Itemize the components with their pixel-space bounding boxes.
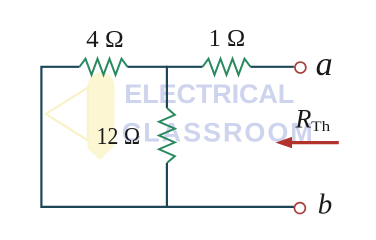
terminal a circle: [295, 62, 306, 73]
arrow R_Th pointing left: [276, 137, 339, 148]
terminal b circle: [294, 203, 305, 214]
wire: middle vertical lower lead: [166, 163, 168, 208]
svg-text:1 Ω: 1 Ω: [209, 26, 246, 52]
wire: middle vertical upper lead: [166, 66, 168, 108]
svg-text:R: R: [295, 105, 312, 134]
resistor R 4ohm zigzag: [80, 59, 128, 75]
resistor 12ohm vertical zigzag: [159, 108, 175, 163]
svg-text:b: b: [318, 189, 333, 221]
watermark logo pencil band: [88, 72, 115, 160]
wire: top middle segment: [128, 66, 203, 68]
watermark logo triangle: [46, 88, 88, 141]
svg-text:4 Ω: 4 Ω: [86, 27, 124, 53]
svg-text:ELECTRICAL: ELECTRICAL: [124, 79, 294, 109]
svg-text:Th: Th: [311, 119, 331, 135]
svg-text:a: a: [316, 46, 333, 83]
wire: top right segment to terminal a: [251, 66, 294, 68]
resistor 1ohm zigzag: [203, 59, 251, 75]
svg-text:12 Ω: 12 Ω: [97, 123, 141, 150]
wire: outer loop (top-left lead, left side, bottom): [41, 67, 294, 207]
